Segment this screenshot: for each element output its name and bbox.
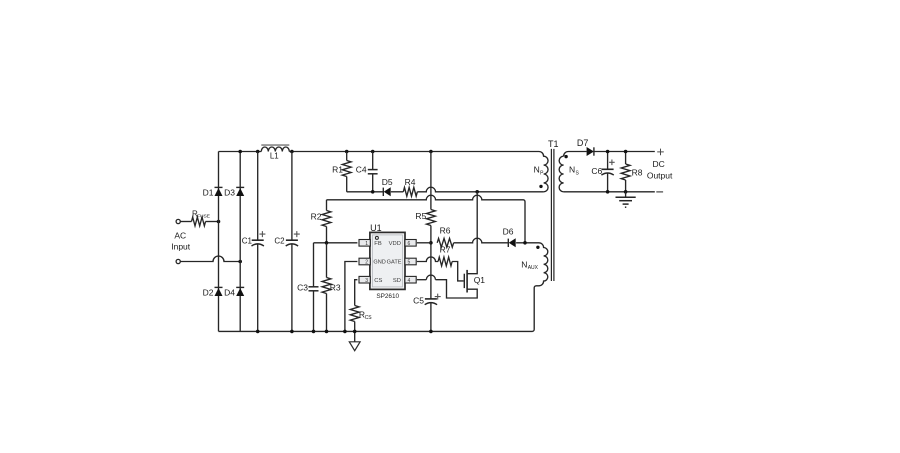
svg-text:VDD: VDD (389, 241, 401, 247)
svg-text:D3: D3 (224, 187, 235, 197)
svg-text:GND: GND (373, 260, 385, 266)
svg-text:4: 4 (408, 278, 411, 284)
svg-text:U1: U1 (370, 223, 382, 233)
svg-text:FUSE: FUSE (197, 214, 210, 220)
svg-text:T1: T1 (548, 139, 559, 149)
svg-text:R1: R1 (332, 165, 343, 175)
svg-text:3: 3 (365, 278, 368, 284)
svg-text:FB: FB (374, 241, 382, 247)
svg-text:D4: D4 (224, 288, 235, 298)
svg-text:N: N (534, 165, 540, 175)
svg-text:R8: R8 (632, 167, 643, 177)
svg-text:5: 5 (408, 260, 411, 266)
svg-text:CS: CS (365, 315, 373, 321)
svg-text:R7: R7 (440, 245, 451, 255)
svg-text:1: 1 (365, 241, 368, 247)
svg-text:R6: R6 (440, 226, 451, 236)
svg-text:C6: C6 (591, 166, 602, 176)
svg-text:D6: D6 (503, 226, 514, 236)
svg-text:Output: Output (647, 170, 673, 180)
svg-text:D7: D7 (577, 138, 589, 148)
svg-text:C2: C2 (274, 236, 285, 245)
svg-text:S: S (576, 170, 580, 176)
svg-text:AUX: AUX (528, 265, 539, 271)
svg-text:D5: D5 (382, 177, 393, 187)
svg-text:N: N (569, 165, 575, 175)
svg-text:CS: CS (374, 278, 382, 284)
svg-text:6: 6 (408, 241, 411, 247)
svg-text:C4: C4 (356, 165, 367, 175)
svg-text:SD: SD (393, 278, 401, 284)
svg-text:R5: R5 (415, 211, 426, 221)
svg-text:C1: C1 (242, 236, 253, 245)
svg-text:R3: R3 (330, 282, 341, 292)
svg-text:GATE: GATE (387, 260, 402, 266)
svg-text:DC: DC (653, 159, 665, 169)
svg-text:D1: D1 (203, 187, 214, 197)
svg-text:N: N (521, 260, 527, 270)
svg-text:SP2610: SP2610 (376, 293, 399, 300)
svg-text:R2: R2 (311, 211, 322, 221)
svg-text:P: P (540, 170, 544, 176)
svg-text:AC: AC (174, 230, 186, 240)
svg-text:C5: C5 (413, 295, 424, 305)
svg-text:C3: C3 (297, 283, 308, 293)
svg-text:2: 2 (365, 260, 368, 266)
svg-text:Input: Input (171, 242, 191, 252)
svg-text:Q1: Q1 (474, 275, 486, 285)
svg-text:D2: D2 (203, 288, 214, 298)
svg-text:L1: L1 (270, 152, 279, 161)
svg-text:R4: R4 (405, 177, 416, 187)
